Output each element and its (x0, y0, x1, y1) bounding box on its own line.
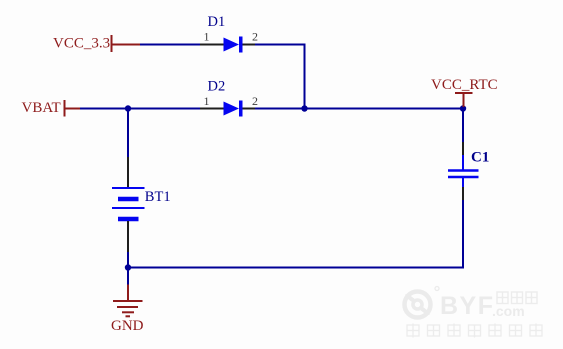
svg-text:GND: GND (111, 318, 144, 334)
svg-text:2: 2 (252, 30, 258, 44)
diode D1 body (224, 37, 243, 53)
wire right vertical upper (462, 109, 464, 143)
battery BT1 plates (112, 188, 145, 219)
power port VBAT (64, 100, 80, 117)
junction VCC_RTC (460, 105, 466, 111)
svg-text:2: 2 (252, 94, 258, 108)
wire D1 pin2 to corner (255, 44, 306, 46)
wire battery branch upper (127, 109, 129, 158)
diode D2 pin 2 (243, 108, 256, 110)
ground GND symbol (113, 285, 143, 317)
svg-text:C1: C1 (471, 150, 489, 166)
capacitor C1 plates (448, 171, 479, 178)
capacitor C1 pin 1 (462, 142, 464, 155)
svg-text:1: 1 (204, 30, 210, 44)
watermark text baifangwang (497, 292, 537, 304)
svg-text:VCC_RTC: VCC_RTC (431, 77, 498, 93)
watermark logo (405, 287, 440, 318)
wire VBAT rail to D2 pin 1 (80, 108, 200, 110)
wire pin to plate (462, 155, 464, 170)
junction bottom rail / GND (125, 264, 131, 270)
svg-text:VCC_3.3: VCC_3.3 (53, 36, 110, 52)
wire D2 pin2 to right corner (255, 108, 463, 110)
wire right vertical lower (462, 200, 464, 269)
wire bottom rail (128, 267, 464, 269)
capacitor C1 pin 2 (462, 187, 464, 200)
svg-text:D2: D2 (208, 79, 226, 95)
svg-text:D1: D1 (208, 14, 226, 30)
junction VBAT/battery (125, 105, 131, 111)
svg-text:.com: .com (492, 303, 525, 319)
wire corner down to main rail (304, 44, 306, 109)
svg-text:BYF: BYF (440, 292, 495, 320)
battery BT1 pin 2 (127, 221, 129, 252)
diode D2 body (224, 101, 243, 117)
power port VCC_RTC (455, 93, 473, 107)
svg-text:BT1: BT1 (145, 189, 171, 205)
svg-text:VBAT: VBAT (22, 100, 61, 116)
diode D1 pin 2 (243, 44, 256, 46)
wire VCC_3.3 to D1 pin 1 (140, 44, 200, 46)
watermark text china electric supplier (407, 324, 542, 338)
wire junction to GND stem (127, 268, 129, 285)
svg-text:1: 1 (204, 94, 210, 108)
power port VCC_3.3 (111, 35, 140, 52)
wire battery to bottom rail (127, 252, 129, 268)
diode D2 pin 1 (200, 108, 224, 110)
diode D1 pin 1 (200, 44, 224, 46)
wire plate to pin (462, 178, 464, 187)
battery BT1 pin 1 (127, 157, 129, 188)
junction D1 branch (301, 105, 307, 111)
